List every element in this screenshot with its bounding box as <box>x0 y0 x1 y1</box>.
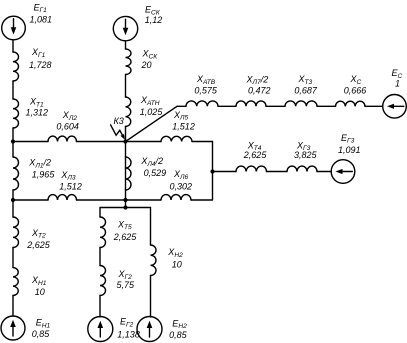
svg-text:0,85: 0,85 <box>169 330 188 340</box>
svg-text:1,728: 1,728 <box>29 60 52 70</box>
svg-text:1,12: 1,12 <box>145 15 163 25</box>
svg-text:0,302: 0,302 <box>170 181 193 191</box>
svg-text:1,312: 1,312 <box>26 108 49 118</box>
svg-text:2,625: 2,625 <box>26 240 51 250</box>
svg-text:0,575: 0,575 <box>194 85 218 95</box>
svg-text:0,472: 0,472 <box>248 85 271 95</box>
svg-text:0,529: 0,529 <box>144 168 167 178</box>
svg-text:0,687: 0,687 <box>294 85 318 95</box>
svg-text:1,965: 1,965 <box>32 169 56 179</box>
svg-text:1,138: 1,138 <box>117 330 140 340</box>
svg-text:1,025: 1,025 <box>140 107 164 117</box>
svg-text:1,512: 1,512 <box>59 182 82 192</box>
svg-text:0,604: 0,604 <box>56 121 79 131</box>
svg-text:1: 1 <box>395 79 400 89</box>
svg-text:К3: К3 <box>114 116 124 126</box>
svg-text:2,625: 2,625 <box>243 150 268 160</box>
svg-text:2,625: 2,625 <box>113 232 138 242</box>
svg-text:1,512: 1,512 <box>172 121 195 131</box>
svg-text:1,081: 1,081 <box>30 14 53 24</box>
svg-text:10: 10 <box>35 287 45 297</box>
svg-text:0,85: 0,85 <box>32 329 51 339</box>
svg-text:3,825: 3,825 <box>294 150 318 160</box>
svg-text:20: 20 <box>141 60 152 70</box>
svg-text:5,75: 5,75 <box>117 280 136 290</box>
svg-text:10: 10 <box>172 260 182 270</box>
svg-text:1,091: 1,091 <box>338 145 361 155</box>
svg-text:0,666: 0,666 <box>344 85 367 95</box>
